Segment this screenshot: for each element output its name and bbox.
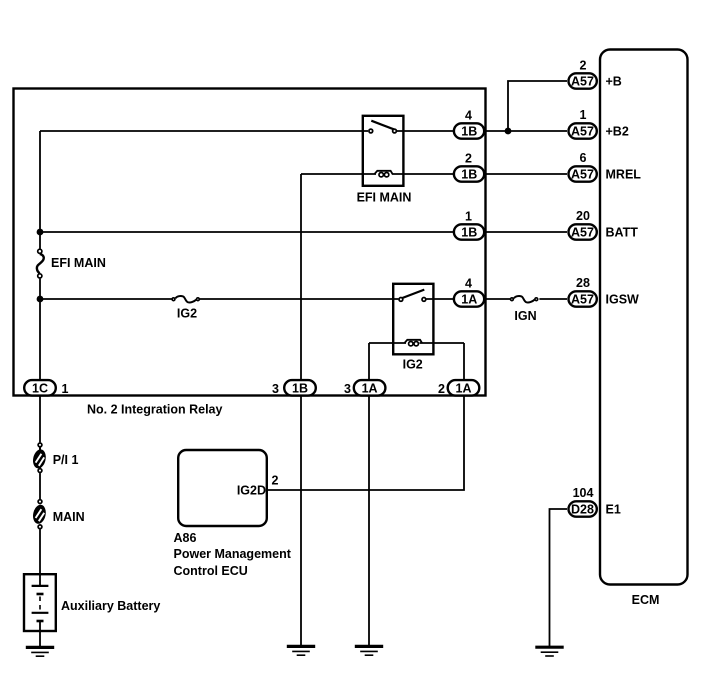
svg-text:D28: D28 bbox=[571, 502, 594, 516]
svg-text:1B: 1B bbox=[461, 168, 477, 182]
pin number 28 bbox=[576, 276, 590, 290]
A86 Power Management Control ECU box bbox=[178, 450, 267, 526]
pin name BATT bbox=[606, 225, 639, 239]
connector 1C pin 1 bbox=[24, 380, 56, 396]
wire: +B2 row from battery feed to EFI MAIN relay contact bbox=[40, 130, 368, 132]
ECM box bbox=[600, 50, 688, 585]
label: Auxiliary Battery bbox=[61, 599, 160, 613]
pin number 1 bbox=[580, 108, 587, 122]
pin number 3 (1B) bbox=[272, 382, 279, 396]
connector A57 pin 28 (IGSW) bbox=[569, 291, 597, 306]
connector A57 pin 6 (MREL) bbox=[569, 166, 597, 181]
fusible link P/I 1 bbox=[31, 443, 47, 473]
label: A86 Power Management Control ECU bbox=[174, 531, 292, 578]
wire: BATT row bbox=[40, 231, 567, 233]
svg-text:ECM: ECM bbox=[632, 593, 660, 607]
pin number 20 bbox=[576, 209, 590, 223]
svg-text:2: 2 bbox=[272, 473, 279, 487]
connector A57 pin 20 (BATT) bbox=[569, 224, 597, 239]
svg-text:MREL: MREL bbox=[606, 167, 642, 181]
pin number 3 (1A) bbox=[344, 382, 351, 396]
EFI MAIN relay coil bbox=[374, 171, 392, 177]
relay IG2 box bbox=[393, 284, 433, 355]
pin name IGSW bbox=[606, 292, 640, 306]
svg-text:A57: A57 bbox=[571, 74, 594, 88]
connector 1A pin 3 bbox=[354, 380, 386, 396]
pin number 2 (A86 IG2D) bbox=[272, 473, 279, 487]
svg-text:A86: A86 bbox=[174, 531, 197, 545]
pin number 1 bbox=[465, 209, 472, 223]
pin name E1 bbox=[606, 502, 621, 516]
svg-text:1B: 1B bbox=[292, 382, 308, 396]
svg-text:A57: A57 bbox=[571, 292, 594, 306]
svg-text:P/I 1: P/I 1 bbox=[53, 453, 79, 467]
ground (E1, x=549.5) bbox=[535, 647, 563, 656]
pin name +B bbox=[606, 74, 622, 88]
pin name IG2D bbox=[237, 483, 266, 497]
svg-text:Control ECU: Control ECU bbox=[174, 564, 248, 578]
svg-text:1C: 1C bbox=[32, 382, 48, 396]
svg-text:1: 1 bbox=[62, 382, 69, 396]
svg-text:EFI MAIN: EFI MAIN bbox=[357, 191, 412, 205]
svg-text:2: 2 bbox=[465, 151, 472, 165]
junction dot IGSW row bbox=[37, 296, 44, 303]
svg-text:A57: A57 bbox=[571, 225, 594, 239]
connector 1B pin 4 bbox=[454, 123, 484, 138]
svg-text:2: 2 bbox=[580, 58, 587, 72]
label: P/I 1 fusible link bbox=[53, 453, 79, 467]
svg-text:6: 6 bbox=[580, 151, 587, 165]
IG2 relay switch blade bbox=[402, 290, 424, 298]
EFI MAIN relay switch contact left bbox=[369, 129, 373, 133]
connector 1A pin 2 bbox=[448, 380, 480, 396]
EFI MAIN relay switch contact right bbox=[393, 129, 397, 133]
IG2 relay switch contact left bbox=[399, 298, 403, 302]
fuse IG2 bbox=[172, 296, 199, 302]
svg-text:20: 20 bbox=[576, 209, 590, 223]
label: IG2 fuse bbox=[177, 307, 197, 321]
svg-text:1A: 1A bbox=[362, 382, 378, 396]
wire: IGSW row segments bbox=[40, 298, 567, 300]
battery: Auxiliary Battery bbox=[24, 574, 56, 631]
svg-text:MAIN: MAIN bbox=[53, 510, 85, 524]
label: EFI MAIN relay bbox=[357, 191, 412, 205]
connector 1B pin 1 bbox=[454, 224, 484, 239]
wire: IG2 coil row right bbox=[420, 342, 465, 344]
pin number 2 bbox=[580, 58, 587, 72]
fusible link MAIN bbox=[31, 500, 47, 529]
connector 1B pin 2 bbox=[454, 166, 484, 181]
wire: IG2 relay coil left vertical x=369 bbox=[368, 343, 370, 646]
connector D28 pin 104 (E1) bbox=[569, 501, 597, 516]
svg-text:1B: 1B bbox=[461, 226, 477, 240]
connector A57 pin 2 (+B) bbox=[569, 73, 597, 88]
svg-text:BATT: BATT bbox=[606, 225, 639, 239]
svg-text:Auxiliary Battery: Auxiliary Battery bbox=[61, 599, 160, 613]
wire: +B branch up from junction bbox=[508, 81, 567, 131]
wire: MREL vertical to ground x=301 bbox=[300, 174, 302, 646]
svg-text:A57: A57 bbox=[571, 124, 594, 138]
pin number 2 (1A) bbox=[438, 382, 445, 396]
connector A57 pin 1 (+B2) bbox=[569, 123, 597, 138]
pin name +B2 bbox=[606, 124, 629, 138]
wire: MREL row left segment bbox=[301, 173, 376, 175]
wire: E1 row bbox=[550, 509, 568, 647]
wire: IG2 relay coil right vertical x=464 down and left to A86 bbox=[267, 343, 464, 490]
svg-text:+B2: +B2 bbox=[606, 124, 629, 138]
svg-text:No. 2 Integration Relay: No. 2 Integration Relay bbox=[87, 402, 222, 416]
label: IGN fuse bbox=[514, 309, 536, 323]
svg-text:1B: 1B bbox=[461, 125, 477, 139]
svg-text:4: 4 bbox=[465, 108, 472, 122]
svg-text:IGSW: IGSW bbox=[606, 292, 640, 306]
label: IG2 relay bbox=[403, 358, 423, 372]
ground (IG2 coil, x=369) bbox=[355, 646, 383, 655]
pin name MREL bbox=[606, 167, 642, 181]
junction on +B2 row bbox=[505, 128, 512, 135]
wire: IG2 coil row left bbox=[369, 342, 406, 344]
fuse IGN bbox=[511, 296, 538, 302]
svg-text:+B: +B bbox=[606, 74, 622, 88]
label: No. 2 Integration Relay bbox=[87, 402, 222, 416]
wire: main battery vertical x=40 bbox=[39, 131, 41, 575]
svg-text:28: 28 bbox=[576, 276, 590, 290]
fusible link EFI MAIN bbox=[37, 249, 44, 278]
IG2 relay coil bbox=[404, 340, 422, 346]
svg-text:IG2: IG2 bbox=[177, 307, 197, 321]
pin number 4 bbox=[465, 276, 472, 290]
svg-text:IG2: IG2 bbox=[403, 358, 423, 372]
svg-text:104: 104 bbox=[573, 486, 594, 500]
connector 1A pin 4 bbox=[454, 291, 484, 306]
svg-text:EFI MAIN: EFI MAIN bbox=[51, 256, 106, 270]
svg-text:IG2D: IG2D bbox=[237, 483, 266, 497]
svg-text:IGN: IGN bbox=[514, 309, 536, 323]
wire: battery to ground bbox=[39, 631, 41, 647]
junction dot BATT row bbox=[37, 229, 44, 236]
pin number 104 bbox=[573, 486, 594, 500]
svg-text:2: 2 bbox=[438, 382, 445, 396]
EFI MAIN relay switch blade bbox=[371, 121, 394, 130]
svg-text:1A: 1A bbox=[461, 293, 477, 307]
pin number 6 bbox=[580, 151, 587, 165]
svg-text:4: 4 bbox=[465, 276, 472, 290]
svg-text:1: 1 bbox=[580, 108, 587, 122]
ground (battery) bbox=[26, 647, 54, 656]
label: MAIN fusible link bbox=[53, 510, 85, 524]
wire: MREL row right segment bbox=[392, 173, 567, 175]
pin number 1 (1C) bbox=[62, 382, 69, 396]
svg-text:A57: A57 bbox=[571, 167, 594, 181]
pin number 4 bbox=[465, 108, 472, 122]
svg-text:1: 1 bbox=[465, 209, 472, 223]
connector 1B pin 3 bbox=[284, 380, 316, 396]
relay EFI MAIN box bbox=[363, 116, 404, 186]
svg-text:Power Management: Power Management bbox=[174, 547, 292, 561]
wire: +B2 row relay contact to A57 bbox=[397, 130, 567, 132]
IG2 relay switch contact right bbox=[422, 298, 426, 302]
svg-text:1A: 1A bbox=[456, 382, 472, 396]
svg-text:E1: E1 bbox=[606, 502, 621, 516]
label: EFI MAIN fusible link bbox=[51, 256, 106, 270]
svg-text:3: 3 bbox=[344, 382, 351, 396]
svg-text:3: 3 bbox=[272, 382, 279, 396]
enclosure: No. 2 Integration Relay bbox=[14, 89, 486, 396]
ground (MREL net, x=301) bbox=[287, 646, 315, 655]
label: ECM bbox=[632, 593, 660, 607]
pin number 2 bbox=[465, 151, 472, 165]
